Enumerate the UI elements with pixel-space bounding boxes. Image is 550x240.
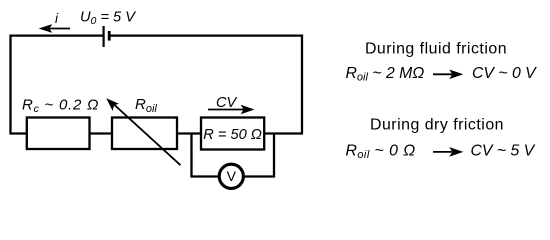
svg-text:During fluid friction: During fluid friction <box>365 40 507 57</box>
CV arrow label <box>208 95 254 114</box>
wire Roil to R <box>177 132 201 134</box>
wire top-right segment <box>111 36 303 134</box>
wire left bottom to Rc <box>9 132 26 134</box>
svg-text:During dry friction: During dry friction <box>370 116 504 133</box>
arrow fluid <box>433 70 463 80</box>
wire R to right vertical <box>265 132 304 134</box>
battery U1 long plate <box>102 26 104 47</box>
svg-text:U0 = 5 V: U0 = 5 V <box>80 9 136 27</box>
current arrow i <box>39 24 70 33</box>
variable resistor Roil <box>112 118 177 150</box>
wire top-left segment <box>11 36 104 133</box>
svg-text:V: V <box>227 168 237 184</box>
svg-text:CV: CV <box>216 95 238 111</box>
resistor Rc <box>27 118 90 150</box>
svg-text:CV ~ 0 V: CV ~ 0 V <box>472 65 537 82</box>
resistor R <box>201 118 264 150</box>
svg-text:R = 50 Ω: R = 50 Ω <box>203 127 262 143</box>
svg-text:Roil ~ 2 MΩ: Roil ~ 2 MΩ <box>346 65 425 84</box>
svg-text:i: i <box>55 11 59 26</box>
battery U1 short plate <box>108 31 111 41</box>
wire voltmeter left branch <box>192 134 219 177</box>
arrow dry <box>433 147 463 157</box>
svg-text:CV ~ 5 V: CV ~ 5 V <box>471 143 536 160</box>
svg-text:Rc ~ 0.2 Ω: Rc ~ 0.2 Ω <box>22 97 99 116</box>
wire Rc to Roil <box>91 132 113 134</box>
wire voltmeter right branch <box>245 134 274 177</box>
svg-text:Roil: Roil <box>135 96 157 115</box>
svg-text:Roil ~ 0 Ω: Roil ~ 0 Ω <box>346 143 416 162</box>
Roil adjustment arrow <box>106 98 180 165</box>
voltmeter V <box>219 164 243 188</box>
